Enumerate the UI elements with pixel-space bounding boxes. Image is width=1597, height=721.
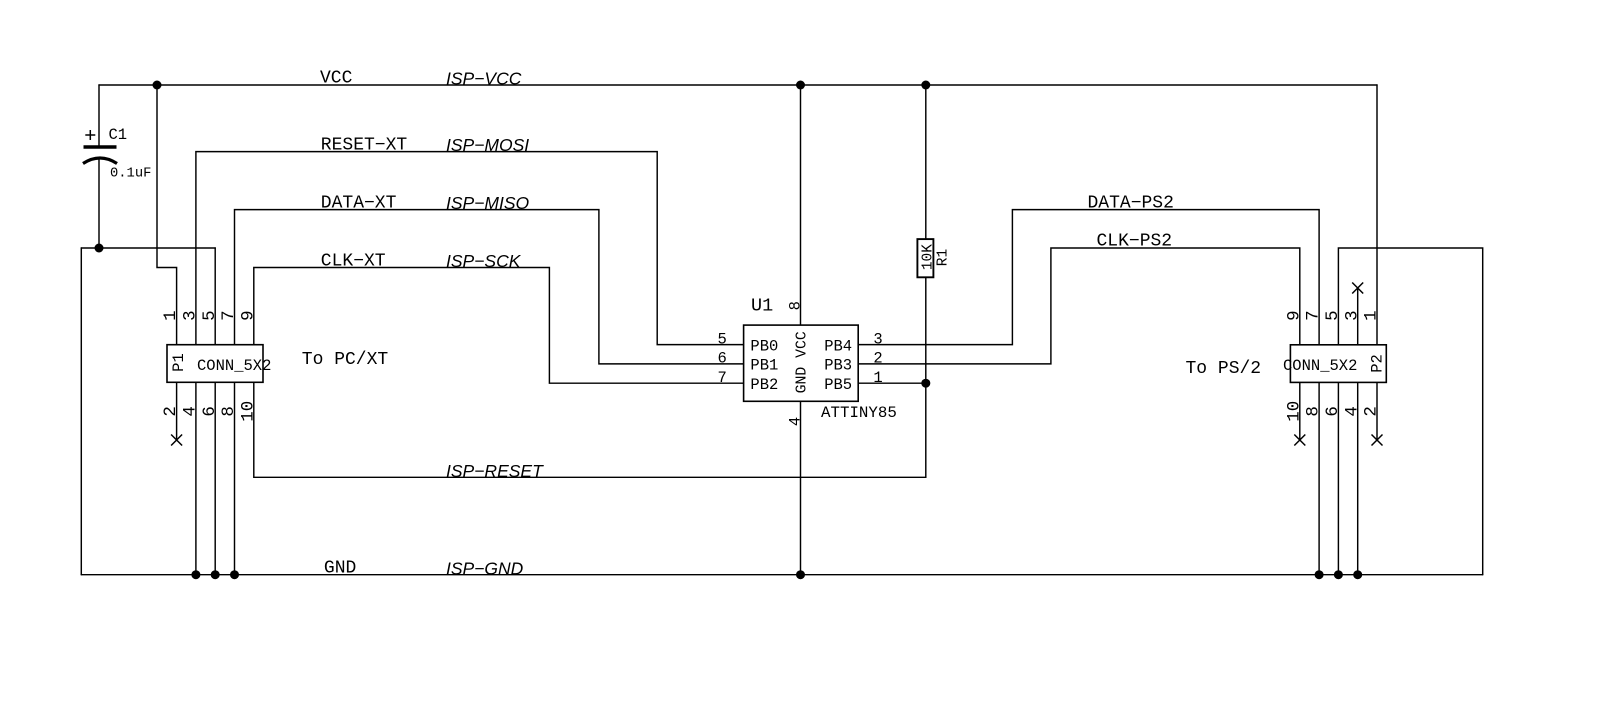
svg-text:1: 1: [1362, 310, 1382, 321]
no-connect P2 pin3: [1352, 283, 1363, 294]
svg-text:C1: C1: [109, 126, 128, 144]
wire VCC to P1 pin1 jog: [157, 85, 177, 345]
no-connect P2 pin2: [1372, 435, 1383, 446]
svg-text:GND VCC: GND VCC: [795, 331, 811, 393]
junction VCC/P1 pin1: [153, 81, 162, 90]
svg-text:2: 2: [1362, 406, 1382, 417]
wire P1 pin2 no-connect stub: [176, 382, 178, 440]
junction PB5/R1/ISP-RESET: [921, 379, 930, 388]
svg-text:CLK−XT: CLK−XT: [321, 251, 386, 271]
wire P1 pin4 to GND: [195, 382, 197, 574]
wire P2 pin6 to GND: [1337, 382, 1339, 574]
svg-text:ISP−VCC: ISP−VCC: [446, 69, 522, 89]
svg-text:PB5: PB5: [824, 376, 852, 394]
svg-text:P2: P2: [1369, 354, 1387, 373]
svg-text:4: 4: [1342, 406, 1362, 417]
svg-text:6: 6: [717, 350, 726, 368]
wire P1 pin6 to GND: [214, 382, 216, 574]
svg-text:6: 6: [200, 406, 220, 417]
wire DATA-PS2 net U1 PB4 to P2 pin7: [858, 210, 1319, 345]
svg-text:CONN_5X2: CONN_5X2: [1283, 357, 1357, 375]
wire U1 pin1 PB5 stub: [858, 382, 926, 384]
no-connect P1 pin2: [171, 435, 182, 446]
wire DATA-XT net P1 pin7 to U1 PB1: [235, 210, 744, 364]
svg-text:GND: GND: [324, 558, 356, 578]
svg-text:ISP−MOSI: ISP−MOSI: [446, 135, 529, 155]
junction C1 bottom node: [95, 244, 104, 253]
junction GND P1 pin8: [230, 570, 239, 579]
svg-text:3: 3: [1342, 310, 1362, 321]
svg-text:4: 4: [181, 406, 201, 417]
svg-text:3: 3: [873, 330, 882, 348]
svg-text:5: 5: [1323, 310, 1343, 321]
svg-text:2: 2: [161, 406, 181, 417]
svg-text:4: 4: [786, 417, 804, 426]
wire P1 pin5 stub: [214, 248, 216, 345]
junction GND P2 pin8: [1315, 570, 1324, 579]
resistor R1: [917, 239, 933, 277]
connector P1 box: [167, 345, 263, 383]
svg-text:9: 9: [1284, 310, 1304, 321]
wire P2 pin4 to GND: [1357, 382, 1359, 574]
junction VCC/R1: [921, 81, 930, 90]
svg-text:RESET−XT: RESET−XT: [321, 135, 408, 155]
svg-text:ISP−MISO: ISP−MISO: [446, 193, 530, 213]
wire U1 pin8 VCC stub: [800, 85, 802, 325]
svg-text:ISP−SCK: ISP−SCK: [446, 251, 522, 271]
svg-text:CLK−PS2: CLK−PS2: [1097, 232, 1173, 252]
svg-text:VCC: VCC: [320, 69, 353, 89]
svg-text:P1: P1: [170, 353, 188, 372]
wire P2 pin5 to GND right loop: [1338, 248, 1482, 575]
svg-text:CONN_5X2: CONN_5X2: [197, 357, 271, 375]
wire GND rail bottom: [81, 574, 1482, 576]
wire P1 pin8 to GND: [234, 382, 236, 574]
svg-text:7: 7: [717, 369, 726, 387]
svg-text:10: 10: [1284, 401, 1304, 422]
wire CLK-XT net P1 pin9 to U1 PB2: [254, 268, 744, 384]
wire VCC right drop to P2 pin1: [1376, 85, 1378, 345]
svg-text:To PS/2: To PS/2: [1186, 359, 1262, 379]
wire RESET-XT net P1 pin3 to U1 PB0: [196, 152, 744, 345]
svg-text:To PC/XT: To PC/XT: [302, 350, 389, 370]
svg-text:U1: U1: [751, 296, 773, 317]
wire GND horizontal below C1: [81, 247, 215, 249]
junction GND P1 pin6: [211, 570, 220, 579]
wire P2 pin2 no-connect stub: [1376, 382, 1378, 440]
no-connect P2 pin10: [1294, 435, 1305, 446]
svg-text:PB1: PB1: [750, 357, 778, 375]
svg-text:ISP−RESET: ISP−RESET: [446, 461, 544, 481]
svg-text:DATA−XT: DATA−XT: [321, 193, 397, 213]
svg-text:3: 3: [181, 310, 201, 321]
svg-text:PB4: PB4: [824, 337, 852, 355]
wire P2 pin3 no-connect stub: [1357, 288, 1359, 345]
svg-text:PB0: PB0: [750, 337, 778, 355]
svg-text:5: 5: [200, 310, 220, 321]
wire P2 pin10 no-connect stub: [1299, 382, 1301, 440]
svg-text:1: 1: [161, 310, 181, 321]
junction GND P2 pin6: [1334, 570, 1343, 579]
connector P2 box: [1290, 345, 1386, 383]
svg-text:8: 8: [1304, 406, 1324, 417]
wire R1 top lead to VCC: [925, 85, 927, 239]
svg-text:9: 9: [238, 310, 258, 321]
svg-text:1: 1: [873, 369, 882, 387]
svg-text:8: 8: [786, 301, 804, 310]
svg-text:ISP−GND: ISP−GND: [446, 558, 524, 578]
junction GND U1 pin4: [796, 570, 805, 579]
wire C1 bottom lead: [98, 160, 100, 249]
svg-text:7: 7: [219, 310, 239, 321]
svg-text:DATA−PS2: DATA−PS2: [1088, 193, 1174, 213]
svg-text:10K: 10K: [921, 244, 937, 270]
op-amp U1 box: [744, 325, 859, 401]
wire C1 top lead: [98, 85, 100, 147]
svg-text:PB2: PB2: [750, 376, 778, 394]
svg-text:2: 2: [873, 350, 882, 368]
junction GND P1 pin4: [191, 570, 200, 579]
wire CLK-PS2 net U1 PB3 to P2 pin9: [858, 248, 1300, 364]
capacitor C1: [83, 130, 117, 164]
svg-text:R1: R1: [935, 249, 951, 266]
svg-text:6: 6: [1323, 406, 1343, 417]
svg-text:ATTINY85: ATTINY85: [821, 404, 897, 422]
svg-text:10: 10: [238, 401, 258, 422]
svg-text:7: 7: [1304, 310, 1324, 321]
wire left GND drop: [80, 248, 82, 575]
junction VCC/U1 pin8: [796, 81, 805, 90]
wire VCC rail top: [99, 84, 1377, 86]
wire P2 pin8 to GND: [1318, 382, 1320, 574]
svg-text:5: 5: [717, 330, 726, 348]
svg-text:8: 8: [219, 406, 239, 417]
wire ISP-RESET net P1 pin10 to R1 bottom node: [254, 277, 926, 477]
wire U1 pin4 GND stub: [800, 401, 802, 574]
junction GND P2 pin4: [1353, 570, 1362, 579]
svg-text:PB3: PB3: [824, 357, 852, 375]
svg-text:0.1uF: 0.1uF: [110, 167, 151, 182]
